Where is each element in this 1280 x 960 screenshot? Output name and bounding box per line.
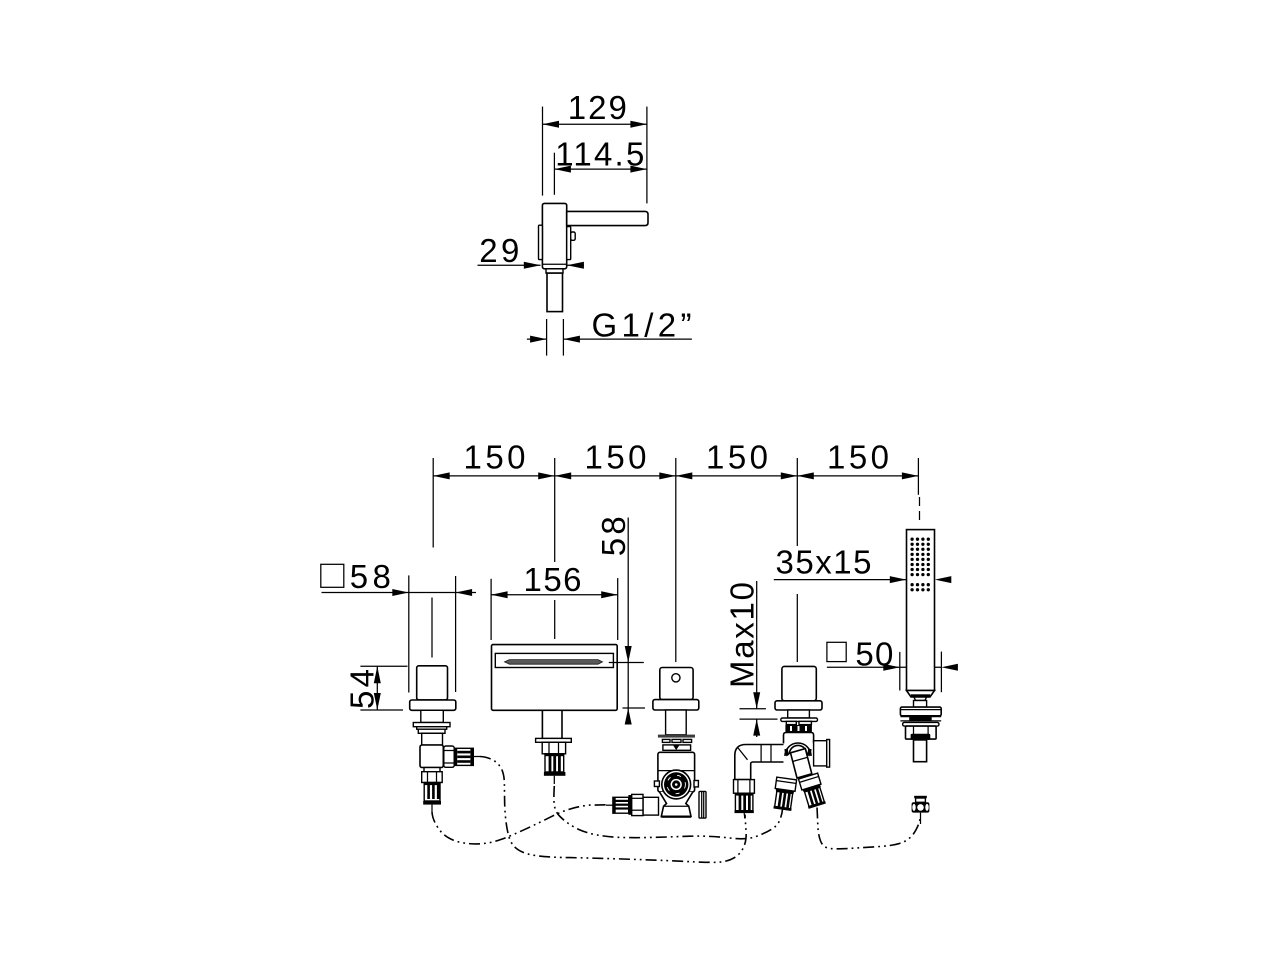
svg-text:150: 150 [827,439,889,476]
svg-text:35x15: 35x15 [776,544,872,581]
svg-text:150: 150 [464,439,526,476]
svg-text:150: 150 [706,439,768,476]
svg-text:150: 150 [585,439,647,476]
svg-text:Max10: Max10 [724,582,761,688]
svg-text:156: 156 [524,561,582,598]
svg-text:129: 129 [568,89,627,126]
svg-text:114.5: 114.5 [555,135,644,172]
